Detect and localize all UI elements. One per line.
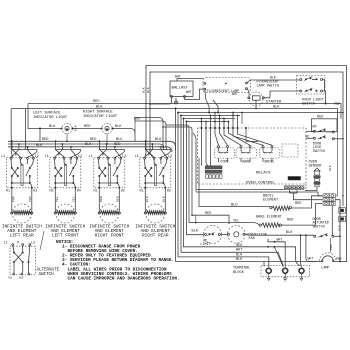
- infinite switch S1 exits: [11, 187, 13, 189]
- wire starter to oven light switch: [264, 91, 300, 98]
- svg-text:FAN: FAN: [249, 237, 255, 241]
- display sub-box: [282, 144, 298, 157]
- wire indicator line A: [135, 118, 165, 150]
- relay K3 terminals: [262, 146, 264, 148]
- relay K2 coil: [241, 148, 250, 151]
- junction broil: [246, 128, 258, 141]
- door lock switch NC row: [313, 137, 315, 139]
- infinite switch S3 internal wires: [98, 159, 101, 168]
- svg-text:L1: L1: [135, 154, 139, 158]
- svg-text:RED: RED: [116, 196, 120, 202]
- svg-text:PRP: PRP: [336, 257, 342, 261]
- wire sensor feed 1: [196, 189, 284, 191]
- bundle wire 4 RED: [184, 119, 301, 266]
- wire lamp drop B: [217, 107, 219, 113]
- alternate switch terminals: [12, 244, 14, 246]
- wire drop cluster: [200, 119, 202, 129]
- wire weave 3: [181, 115, 240, 117]
- wire into control 1: [200, 128, 202, 166]
- wire BLU broil: [199, 166, 270, 207]
- wire top frame inner: [150, 72, 343, 206]
- svg-text:SENSOR: SENSOR: [309, 164, 323, 168]
- bundle wire 3 WHT: [181, 116, 284, 267]
- svg-text:BROIL: BROIL: [265, 159, 275, 163]
- connector CN2 row: [284, 186, 287, 190]
- wire starter drop: [255, 100, 257, 108]
- svg-text:RIGHT FRONT: RIGHT FRONT: [95, 233, 125, 239]
- element E2 body box: [54, 188, 56, 213]
- relay K1 coil: [219, 148, 228, 151]
- svg-text:BLK: BLK: [74, 125, 78, 131]
- svg-text:BLK: BLK: [96, 105, 103, 109]
- infinite switch S2 feed crossings: [56, 150, 65, 158]
- wire lamp to starter: [247, 89, 249, 96]
- relay K3 box: [259, 148, 280, 158]
- connector CN4b: [339, 216, 346, 222]
- wire sensor lead: [305, 187, 317, 191]
- convection fan motor: [234, 232, 239, 237]
- alternate switch box: [10, 246, 35, 275]
- svg-text:LEFT REAR: LEFT REAR: [10, 233, 34, 239]
- infinite switch S4 internal wires: [144, 159, 147, 168]
- svg-text:SWITCH: SWITCH: [313, 226, 325, 230]
- terminal arrows: [267, 274, 270, 281]
- starter body: [253, 96, 261, 100]
- terminal L1: [266, 268, 271, 273]
- relay K2 box: [236, 148, 257, 158]
- svg-text:BLK: BLK: [155, 138, 162, 142]
- connector CN1 pins: [206, 175, 209, 179]
- wire bundle top 1: [175, 109, 177, 151]
- wire lamp drop B top: [213, 100, 218, 107]
- svg-text:RED: RED: [295, 202, 301, 206]
- starter enclosure: [249, 92, 263, 106]
- junction lamp: [339, 261, 341, 263]
- svg-text:LAMP SWITCH: LAMP SWITCH: [257, 85, 279, 89]
- door lock switch box: [311, 119, 337, 132]
- svg-text:PRP: PRP: [329, 244, 333, 250]
- svg-text:P: P: [15, 153, 17, 157]
- svg-text:PRP: PRP: [334, 103, 340, 107]
- junction bus-frame: [145, 103, 147, 105]
- infinite switch S1 feed crossings: [12, 150, 21, 158]
- wire WHT cross diag: [274, 247, 283, 266]
- ballast box: [170, 81, 193, 97]
- infinite switch S3 terminals: [98, 157, 100, 159]
- svg-text:P: P: [58, 153, 60, 157]
- infinite switch S4 box: [140, 158, 171, 188]
- svg-text:L2: L2: [31, 241, 35, 245]
- wire BLK bus: [11, 109, 337, 132]
- wire oven control left vert: [198, 158, 200, 166]
- relay K3 bottom stubs: [262, 158, 264, 162]
- svg-text:RED: RED: [42, 138, 48, 142]
- svg-text:H2: H2: [33, 189, 37, 193]
- wire broil right RED: [291, 196, 322, 208]
- svg-text:H2: H2: [20, 276, 24, 280]
- infinite switch S2 box: [50, 158, 81, 188]
- junction CN3: [342, 195, 344, 197]
- svg-text:RED: RED: [287, 218, 293, 222]
- element E1 body box: [11, 188, 13, 213]
- infinite switch S4 feed bar: [145, 149, 171, 151]
- infinite switch S4 feed drops: [145, 141, 147, 149]
- svg-text:WHT: WHT: [236, 249, 242, 253]
- element E3 resistor: [98, 212, 100, 214]
- lamp right surface indicator: [105, 126, 109, 130]
- infinite switch S3 box: [94, 158, 125, 188]
- wire left feeder B: [25, 109, 26, 150]
- wire indicator middle: [73, 128, 101, 130]
- svg-text:PRP: PRP: [12, 196, 16, 202]
- wire indicator drop left: [39, 129, 41, 142]
- wire door lock right NC: [334, 138, 343, 140]
- connector dark bar: [288, 177, 301, 181]
- relay K1 terminals: [218, 146, 220, 148]
- infinite switch S3 exits: [98, 187, 100, 189]
- wire band BLK: [8, 147, 172, 152]
- bundle wire 1 BLK: [176, 150, 265, 267]
- svg-text:BLU: BLU: [231, 203, 237, 207]
- infinite switch S2 feed bar: [55, 149, 81, 151]
- svg-text:H1: H1: [140, 189, 144, 193]
- svg-text:BLK: BLK: [85, 143, 92, 147]
- svg-text:BLK: BLK: [49, 125, 56, 129]
- oven lamp dome: [317, 256, 335, 262]
- wire jog: [195, 215, 197, 222]
- svg-text:SWITCH: SWITCH: [302, 103, 315, 107]
- infinite switch S1 internal wires: [10, 159, 13, 168]
- fluorescent lamp switch contacts: [300, 79, 302, 81]
- svg-text:BLK: BLK: [146, 87, 150, 93]
- wire lamp drops: [66, 134, 68, 142]
- infinite switch S2 exits: [54, 187, 56, 189]
- infinite switch S4 feed crossings: [146, 150, 155, 158]
- connector CN1 bar2: [205, 170, 222, 173]
- wire ballast right: [185, 89, 204, 99]
- wire band RED: [8, 141, 176, 150]
- wire door lock left: [306, 130, 313, 132]
- svg-text:WHT: WHT: [175, 75, 181, 79]
- alternate switch bottom terminals: [13, 273, 15, 275]
- broil element resistor: [270, 206, 272, 208]
- svg-text:H1: H1: [6, 189, 10, 193]
- wire cascade RED: [163, 127, 192, 215]
- element E3 enclosure: [100, 204, 119, 223]
- infinite switch S3 feed drops: [99, 141, 101, 149]
- wire indicator right: [113, 129, 135, 142]
- wire lamp drop A top: [205, 90, 209, 107]
- starter terminals: [248, 97, 250, 99]
- junction row oven control: [200, 127, 202, 129]
- svg-text:NO: NO: [313, 124, 317, 128]
- svg-text:RIGHT REAR: RIGHT REAR: [142, 233, 169, 239]
- junction RED mid: [191, 214, 193, 216]
- svg-text:RELAYS: RELAYS: [256, 172, 271, 176]
- infinite switch S4 terminals: [144, 157, 146, 159]
- svg-text:RED: RED: [84, 125, 90, 129]
- wire RED mid: [192, 215, 229, 223]
- convection fan enclosure: [228, 226, 246, 244]
- svg-text:L1: L1: [89, 154, 93, 158]
- fluorescent lamp tube: [203, 78, 250, 93]
- infinite switch S3 feed crossings: [100, 150, 109, 158]
- wire door drop A: [301, 235, 302, 267]
- relay K1 bottom stubs: [218, 158, 220, 162]
- svg-text:SWITCH: SWITCH: [313, 150, 325, 154]
- ballast terminals: [171, 96, 173, 98]
- svg-text:H1: H1: [94, 189, 98, 193]
- door lock switch NO row: [313, 130, 315, 132]
- infinite switch S1 feed bar: [11, 149, 37, 151]
- svg-text:H2: H2: [167, 189, 171, 193]
- wire door drop B: [306, 235, 317, 261]
- connector CN1 bar1: [205, 166, 222, 169]
- svg-text:BLK: BLK: [36, 144, 43, 148]
- bake element resistor: [259, 224, 261, 226]
- svg-text:LIMIT: LIMIT: [200, 243, 210, 247]
- svg-text:H1: H1: [9, 276, 13, 280]
- svg-text:CONV: CONV: [221, 159, 229, 163]
- wire ballast left lead: [150, 98, 172, 105]
- svg-text:ALTERNATE: ALTERNATE: [37, 268, 60, 272]
- terminal N: [283, 268, 288, 273]
- element E4 enclosure: [146, 204, 165, 223]
- svg-text:BLK: BLK: [328, 165, 332, 171]
- wire indicator line B: [135, 121, 168, 150]
- svg-text:RED: RED: [99, 196, 103, 202]
- infinite switch S4 exits: [144, 187, 146, 189]
- element E1 enclosure: [12, 204, 31, 223]
- svg-text:RIGHT SURFACE: RIGHT SURFACE: [83, 110, 113, 114]
- terminal L2: [299, 268, 304, 273]
- wire band BLU: [8, 144, 164, 148]
- svg-text:ELEMENT: ELEMENT: [263, 199, 279, 203]
- junction oven light switch: [325, 103, 327, 105]
- fluorescent lamp pins: [204, 83, 206, 85]
- wire fan to relays: [215, 128, 219, 145]
- svg-text:YEL: YEL: [72, 196, 76, 202]
- wire ballast top: [177, 79, 203, 81]
- svg-text:P: P: [17, 241, 19, 245]
- ballast ground: [175, 101, 178, 104]
- wire lamp to switch BLK: [247, 80, 300, 83]
- svg-text:BLOCK: BLOCK: [233, 271, 245, 275]
- svg-text:PRP: PRP: [28, 196, 32, 202]
- wire hi limit to fan: [220, 233, 227, 235]
- oven control box: [198, 128, 306, 184]
- svg-text:P: P: [148, 153, 150, 157]
- wire top frame outer: [146, 66, 347, 263]
- svg-text:L1: L1: [45, 154, 49, 158]
- bundle wire 2 BLK: [178, 113, 269, 268]
- svg-text:BLK: BLK: [286, 231, 293, 235]
- svg-text:RED: RED: [93, 100, 99, 104]
- relay K2 terminals: [240, 146, 242, 148]
- svg-text:H3: H3: [50, 189, 54, 193]
- connector CN3 grid: [323, 194, 329, 198]
- svg-text:WHT: WHT: [308, 257, 314, 261]
- svg-text:NC: NC: [306, 134, 310, 138]
- svg-text:LEFT SURFACE: LEFT SURFACE: [33, 111, 61, 115]
- wire CN3 right row2: [335, 200, 340, 262]
- svg-text:BAKE: BAKE: [242, 159, 250, 163]
- wire weave 5: [187, 121, 230, 123]
- relay K1 box: [214, 148, 235, 158]
- terminal block box: [261, 265, 309, 276]
- wire weave 2: [178, 112, 343, 114]
- svg-text:BLK: BLK: [236, 253, 243, 257]
- svg-text:BLK: BLK: [337, 225, 341, 231]
- wire cascade YEL: [166, 125, 189, 223]
- svg-text:LAMP: LAMP: [321, 267, 329, 271]
- convection fan terminals: [228, 233, 230, 235]
- hi limit enclosure: [204, 226, 222, 244]
- wire fluor switch right: [323, 80, 325, 92]
- oven light switch box: [297, 76, 326, 95]
- oven light switch contacts: [300, 90, 302, 92]
- wire right edge drop: [335, 131, 337, 196]
- infinite switch S4 contacts: [144, 167, 146, 169]
- wire hi limit BLK: [187, 122, 205, 235]
- wire left feeder A: [11, 109, 13, 158]
- ground symbol: [284, 274, 286, 279]
- svg-text:BLK: BLK: [145, 196, 149, 202]
- svg-text:BLK: BLK: [270, 76, 276, 80]
- svg-text:RED: RED: [205, 212, 211, 216]
- infinite switch S1 terminals: [10, 157, 12, 159]
- infinite switch S2 contacts: [54, 167, 56, 169]
- svg-text:RED: RED: [236, 244, 242, 248]
- bundle tops: [175, 108, 177, 110]
- element E2 enclosure: [56, 204, 75, 223]
- wire lamp drop A: [208, 107, 210, 113]
- wire indicator feed left: [28, 104, 61, 129]
- connector CN4a: [339, 208, 346, 214]
- element E1 resistor: [11, 212, 13, 214]
- junction indicator: [39, 128, 41, 130]
- wire lamp right: [335, 261, 347, 263]
- wire WHT top terminal: [268, 239, 285, 268]
- wire weave 4: [184, 118, 236, 120]
- oven sensor body: [314, 168, 320, 171]
- wire sensor feed tops: [193, 133, 196, 190]
- relay K3 coil: [263, 148, 272, 151]
- svg-text:LEFT FRONT: LEFT FRONT: [52, 233, 79, 239]
- svg-text:L1: L1: [4, 241, 8, 245]
- infinite switch S2 internal wires: [54, 159, 57, 168]
- oven control bottom-right dash: [305, 184, 307, 191]
- wire RED bus: [28, 104, 341, 119]
- lamp left surface indicator: [65, 126, 69, 130]
- svg-text:BLK: BLK: [236, 258, 243, 262]
- svg-text:OVEN CONTROL: OVEN CONTROL: [246, 181, 275, 185]
- svg-text:INDICATOR LIGHT: INDICATOR LIGHT: [83, 115, 118, 119]
- element E3 body box: [98, 188, 100, 213]
- svg-text:BLU: BLU: [116, 138, 122, 142]
- infinite switch S1 contacts: [11, 167, 13, 169]
- svg-text:BLK: BLK: [273, 105, 280, 109]
- svg-text:BLK: BLK: [192, 230, 199, 234]
- infinite switch S3 feed bar: [99, 149, 125, 151]
- svg-text:CAN CAUSE IMPROPER AND DANGERO: CAN CAUSE IMPROPER AND DANGEROUS OPERATI…: [68, 276, 180, 281]
- svg-text:STARTER: STARTER: [266, 100, 282, 104]
- svg-text:L1: L1: [1, 154, 5, 158]
- svg-text:TERMINAL: TERMINAL: [233, 266, 250, 270]
- svg-text:H2: H2: [121, 189, 125, 193]
- svg-text:WHT: WHT: [232, 92, 238, 96]
- connector CN2 bracket: [290, 190, 323, 200]
- wire into control 2: [209, 128, 211, 166]
- svg-text:INDICATOR LIGHT: INDICATOR LIGHT: [33, 116, 68, 120]
- svg-text:BAKE ELEMENT: BAKE ELEMENT: [256, 215, 283, 219]
- wire bake right RED: [282, 204, 323, 226]
- element E4 resistor: [144, 212, 146, 214]
- svg-text:SWITCH: SWITCH: [39, 273, 55, 277]
- door actuated switch: [314, 235, 316, 237]
- svg-text:P: P: [102, 153, 104, 157]
- element E4 body box: [144, 188, 146, 213]
- wire YEL bake: [189, 223, 259, 226]
- wire oven light switch right: [323, 91, 326, 104]
- svg-text:H4: H4: [77, 189, 81, 193]
- infinite switch S1 box: [6, 158, 37, 188]
- svg-text:WHT: WHT: [186, 90, 192, 94]
- svg-text:BLK: BLK: [162, 196, 166, 202]
- relay K2 bottom stubs: [240, 158, 242, 162]
- hi limit contacts: [205, 234, 207, 236]
- oven lamp enclosure arc: [320, 253, 336, 261]
- infinite switch S2 feed drops: [55, 141, 57, 149]
- infinite switch S2 terminals: [54, 157, 56, 159]
- wire PRP drop: [330, 238, 332, 253]
- infinite switch S1 feed drops: [11, 141, 13, 149]
- wire door switch right: [334, 235, 340, 237]
- svg-text:WHT: WHT: [277, 237, 283, 241]
- element E2 resistor: [54, 212, 56, 214]
- alternate switch contacts: [13, 252, 15, 254]
- infinite switch S3 contacts: [98, 167, 100, 169]
- wire fan to door switch BLK: [245, 233, 314, 236]
- wire sensor feed 2: [196, 192, 323, 196]
- svg-text:YEL: YEL: [55, 196, 59, 202]
- svg-text:RED: RED: [90, 138, 96, 142]
- leader line alternate switch: [40, 231, 44, 250]
